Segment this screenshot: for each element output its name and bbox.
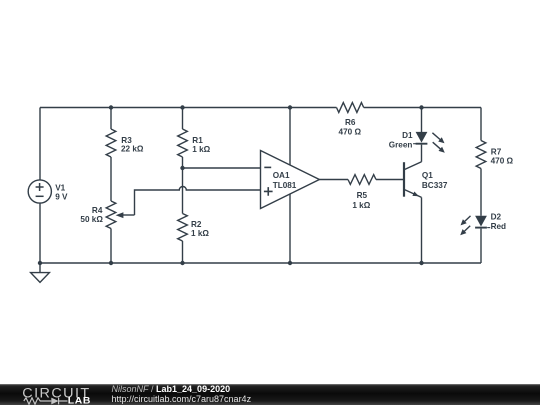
svg-text:OA1: OA1 <box>273 171 290 180</box>
voltage source V1 <box>28 180 68 203</box>
wire top rail to D1 <box>421 108 423 133</box>
wire inverting input <box>183 167 261 169</box>
junction <box>419 261 423 265</box>
wire top rail to R3 <box>110 108 112 130</box>
svg-text:R6: R6 <box>345 118 356 127</box>
CircuitLab logo <box>22 386 91 405</box>
svg-text:1 kΩ: 1 kΩ <box>191 229 209 238</box>
wire R4 wiper to non-inverting input <box>135 187 261 215</box>
svg-text:1 kΩ: 1 kΩ <box>192 145 210 154</box>
svg-text:V1: V1 <box>55 184 65 193</box>
junction <box>109 261 113 265</box>
resistor R3 <box>106 129 144 157</box>
resistor R6 <box>337 103 364 137</box>
transistor Q1 <box>404 162 448 198</box>
wire R3 to R4 <box>110 157 112 201</box>
wire top rail to R1 <box>182 108 184 130</box>
junction <box>180 166 184 170</box>
wire right branch top <box>480 108 482 141</box>
resistor R2 <box>178 214 210 242</box>
svg-text:Q1: Q1 <box>422 171 433 180</box>
wire V1 branch top <box>39 108 41 181</box>
svg-text:R3: R3 <box>121 136 132 145</box>
svg-text:R7: R7 <box>491 148 502 157</box>
svg-text:LAB: LAB <box>68 395 91 405</box>
wire R7 to D2 <box>480 169 482 216</box>
resistor R1 <box>178 129 211 157</box>
svg-text:R4: R4 <box>92 206 103 215</box>
svg-text:Green: Green <box>389 141 413 150</box>
svg-text:BC337: BC337 <box>422 181 448 190</box>
wire R1 to R2 <box>182 157 184 214</box>
svg-text:R1: R1 <box>192 136 203 145</box>
svg-text:D2: D2 <box>491 213 502 222</box>
svg-text:R5: R5 <box>357 191 368 200</box>
junction <box>180 261 184 265</box>
footer bar <box>0 384 540 405</box>
op-amp OA1 <box>261 151 320 209</box>
wire op-amp output <box>319 179 348 181</box>
LED D2 <box>460 213 506 236</box>
potentiometer R4 <box>80 201 134 229</box>
junction <box>288 105 292 109</box>
junction <box>38 261 42 265</box>
ground <box>31 263 50 282</box>
svg-text:9 V: 9 V <box>55 193 68 202</box>
svg-text:R2: R2 <box>191 220 202 229</box>
wire R5 to Q1 base <box>376 179 404 181</box>
wire R2 to bottom rail <box>182 241 184 263</box>
junction <box>109 105 113 109</box>
svg-text:470 Ω: 470 Ω <box>491 157 514 166</box>
wire top rail right segment <box>364 107 481 109</box>
svg-text:NilsonNF / Lab1_24_09-2020: NilsonNF / Lab1_24_09-2020 <box>112 384 231 394</box>
resistor R7 <box>476 141 513 169</box>
wire top rail left segment <box>40 107 337 109</box>
wire R4 to bottom rail <box>110 229 112 264</box>
resistor R5 <box>348 175 376 210</box>
svg-text:50 kΩ: 50 kΩ <box>80 215 103 224</box>
wire Q1 emitter to bottom rail <box>421 197 423 263</box>
svg-text:http://circuitlab.com/c7aru87c: http://circuitlab.com/c7aru87cnar4z <box>112 394 252 404</box>
wire bottom rail <box>40 262 481 264</box>
wire D2 to bottom rail <box>480 229 482 263</box>
wire Q1 collector to D1 <box>421 145 423 162</box>
wire op-amp power rails <box>289 108 291 264</box>
svg-text:Red: Red <box>491 222 506 231</box>
svg-text:470 Ω: 470 Ω <box>339 127 362 136</box>
junction <box>419 105 423 109</box>
junction <box>288 261 292 265</box>
svg-text:D1: D1 <box>402 131 413 140</box>
wire V1 branch bottom <box>39 203 41 263</box>
junction <box>180 105 184 109</box>
svg-text:1 kΩ: 1 kΩ <box>352 201 370 210</box>
LED D1 <box>389 131 445 153</box>
svg-text:TL081: TL081 <box>273 181 297 190</box>
svg-text:22 kΩ: 22 kΩ <box>121 145 144 154</box>
